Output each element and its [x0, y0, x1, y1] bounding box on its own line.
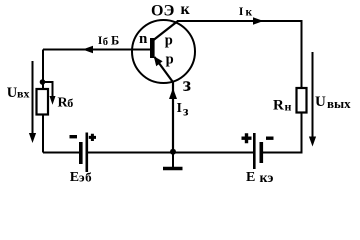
- battery Eкэ plus sign: [242, 133, 252, 143]
- svg-text:н: н: [285, 100, 292, 114]
- svg-text:U: U: [315, 94, 326, 110]
- current arrow Iк (pointing right): [253, 17, 264, 24]
- svg-text:к: к: [181, 1, 191, 18]
- emitter line: [155, 57, 173, 82]
- svg-text:I: I: [239, 4, 244, 18]
- svg-text:I: I: [177, 101, 182, 116]
- battery Eкэ : long plate (positive): [253, 133, 256, 169]
- current arrow Iэ (pointing up): [169, 88, 177, 99]
- wire bottom middle: [87, 152, 254, 154]
- current hook arrow at Rб: [43, 82, 53, 98]
- wire base: [43, 49, 151, 51]
- wire bottom left: [43, 152, 80, 154]
- svg-text:з: з: [183, 74, 191, 96]
- battery Eкэ minus sign: [266, 137, 274, 140]
- base bar: [150, 38, 155, 58]
- svg-text:вх: вх: [17, 87, 29, 101]
- svg-text:p: p: [165, 33, 173, 49]
- voltage arrow Uвх (down): [32, 61, 34, 135]
- emitter arrowhead (points to base, pnp): [154, 56, 163, 66]
- resistor Rн: [297, 88, 307, 113]
- svg-text:Е: Е: [246, 170, 255, 185]
- ground: [172, 152, 174, 168]
- junction dot (emitter to ground): [170, 149, 176, 155]
- wire emitter: [172, 81, 174, 152]
- wire bottom right: [263, 152, 303, 154]
- current arrow Iб (pointing left): [83, 46, 94, 53]
- wire right: [301, 20, 303, 153]
- battery Eэб : long plate (positive): [86, 133, 89, 173]
- resistor Rб: [37, 89, 49, 115]
- voltage arrow Uвых (down): [312, 52, 314, 138]
- wire top (collector to load): [177, 20, 302, 22]
- svg-text:ОЭ: ОЭ: [151, 3, 174, 20]
- svg-text:вых: вых: [327, 96, 351, 111]
- svg-text:к: к: [246, 7, 253, 19]
- svg-text:кэ: кэ: [260, 171, 274, 186]
- svg-text:б: б: [103, 37, 108, 48]
- svg-text:з: з: [183, 104, 189, 119]
- svg-text:R: R: [273, 98, 284, 114]
- collector line: [154, 21, 178, 40]
- svg-text:Е: Е: [70, 170, 79, 185]
- svg-text:Б: Б: [111, 33, 119, 47]
- battery Eэб minus sign: [70, 135, 78, 138]
- svg-text:эб: эб: [79, 170, 92, 185]
- svg-text:n: n: [139, 31, 148, 47]
- transistor VT1 (circle): [132, 20, 195, 83]
- battery Eэб : short plate (negative): [79, 142, 83, 164]
- battery Eкэ : short plate (negative): [260, 142, 264, 163]
- wire left: [42, 50, 44, 153]
- svg-text:б: б: [67, 96, 73, 110]
- battery Eэб plus sign: [89, 134, 96, 141]
- svg-text:p: p: [166, 52, 174, 68]
- junction dot (base network): [40, 79, 46, 85]
